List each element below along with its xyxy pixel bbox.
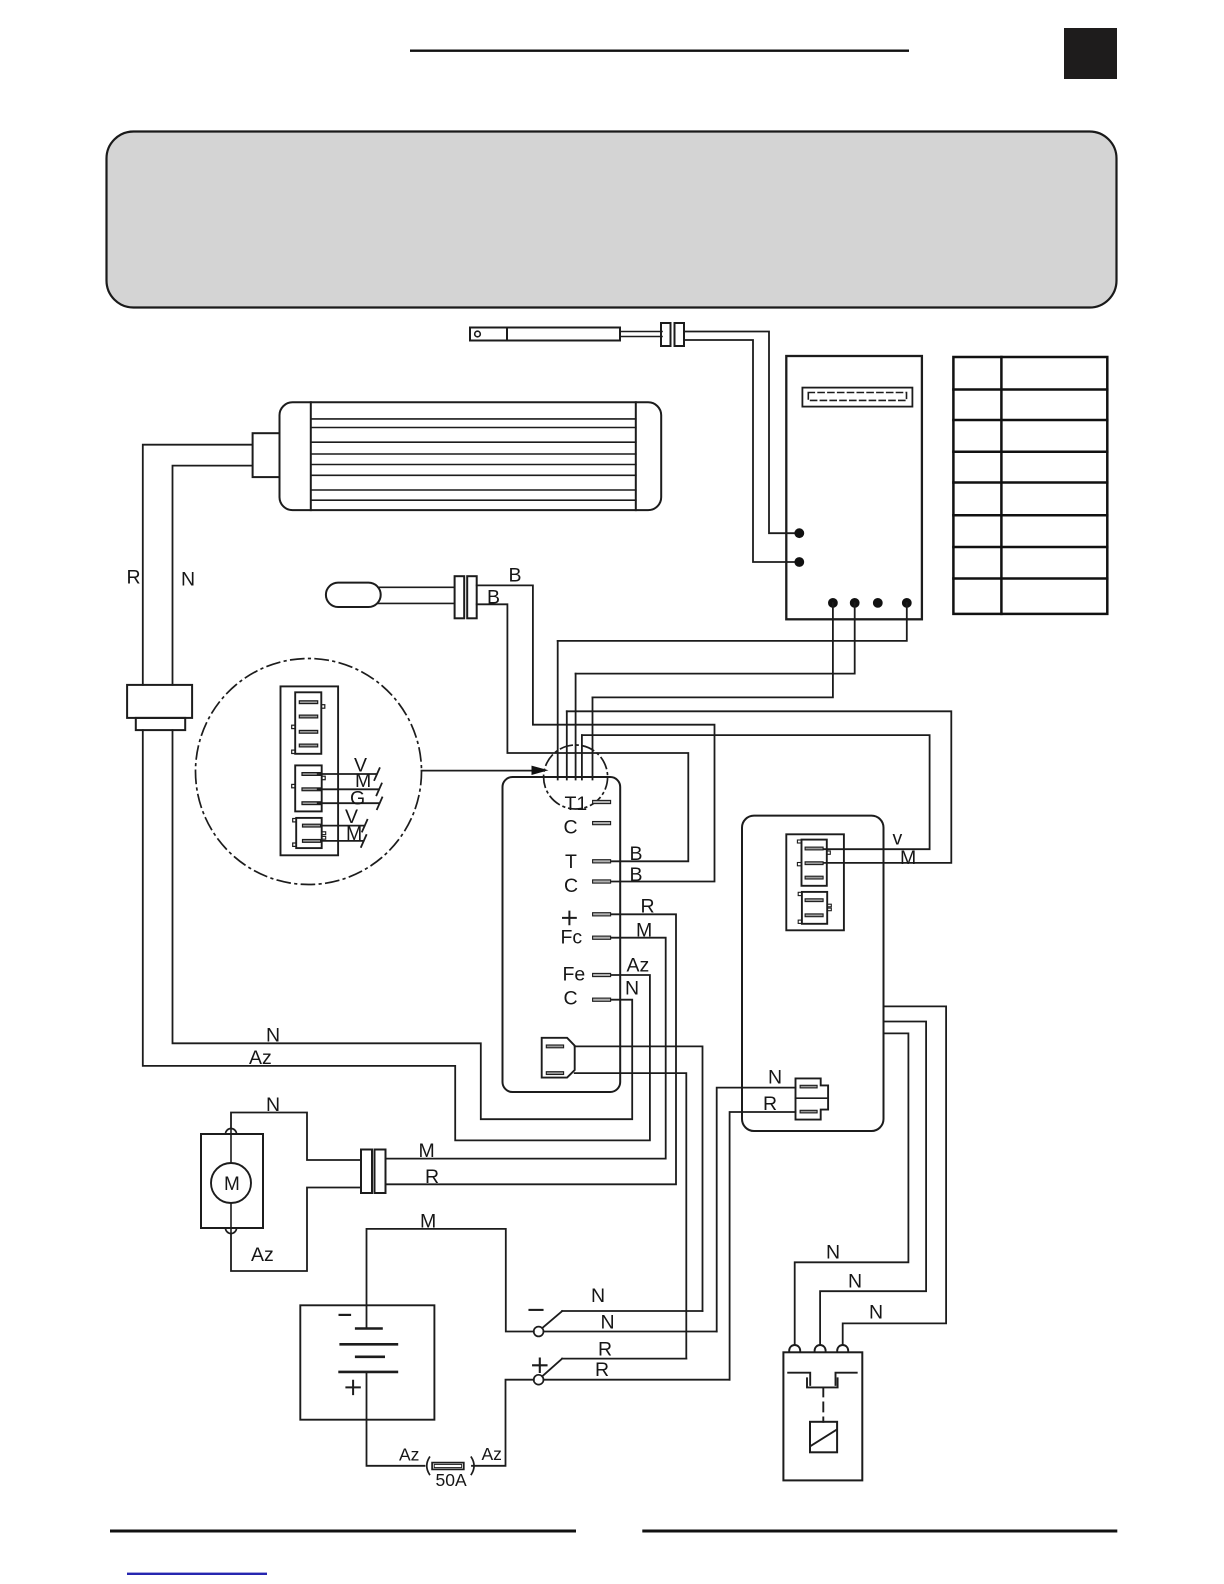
svg-text:N: N (591, 1285, 605, 1307)
svg-text:Fe: Fe (563, 964, 586, 986)
svg-text:B: B (630, 864, 643, 886)
svg-text:B: B (487, 587, 500, 609)
svg-text:B: B (630, 843, 643, 865)
svg-text:R: R (763, 1093, 777, 1115)
svg-text:N: N (181, 569, 195, 591)
svg-text:T1: T1 (565, 793, 588, 815)
svg-text:50A: 50A (436, 1470, 467, 1490)
svg-text:N: N (848, 1271, 862, 1293)
svg-text:M: M (346, 823, 362, 845)
svg-text:Fc: Fc (561, 927, 583, 949)
svg-text:M: M (636, 920, 652, 942)
svg-text:Az: Az (627, 955, 650, 977)
svg-text:C: C (564, 817, 578, 839)
svg-text:N: N (266, 1025, 280, 1047)
svg-text:R: R (425, 1166, 439, 1188)
svg-text:M: M (420, 1211, 436, 1233)
svg-text:N: N (869, 1302, 883, 1324)
svg-text:N: N (266, 1094, 280, 1116)
svg-text:M: M (224, 1174, 240, 1195)
svg-text:R: R (598, 1339, 612, 1361)
svg-text:R: R (595, 1359, 609, 1381)
svg-text:N: N (826, 1242, 840, 1264)
svg-text:Az: Az (482, 1444, 502, 1464)
svg-text:N: N (768, 1067, 782, 1089)
svg-text:M: M (900, 847, 916, 869)
svg-text:C: C (564, 988, 578, 1010)
svg-text:R: R (641, 896, 655, 918)
svg-text:Az: Az (399, 1445, 419, 1465)
svg-text:Az: Az (251, 1244, 274, 1266)
svg-text:B: B (509, 565, 522, 587)
svg-text:N: N (625, 978, 639, 1000)
svg-text:T: T (565, 851, 577, 873)
svg-text:R: R (127, 567, 141, 589)
svg-text:M: M (419, 1140, 435, 1162)
svg-text:Az: Az (249, 1047, 272, 1069)
svg-text:N: N (601, 1312, 615, 1334)
svg-text:C: C (564, 875, 578, 897)
